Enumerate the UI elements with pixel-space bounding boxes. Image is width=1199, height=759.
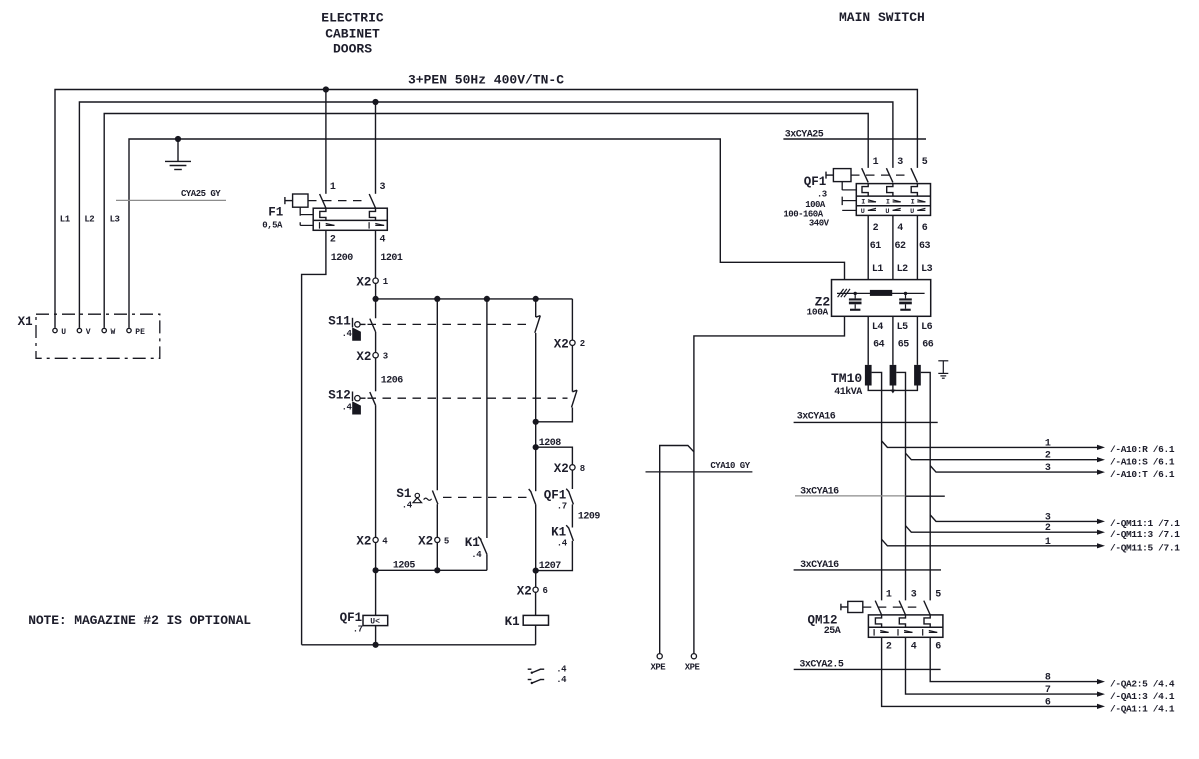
svg-text:.4: .4 [471, 550, 482, 560]
linkage dashed S11 [368, 323, 532, 325]
breaker QF1 pole3 U< symbol [910, 208, 925, 216]
svg-text:K1: K1 [465, 536, 480, 550]
svg-text:.4: .4 [402, 500, 413, 510]
feed QA2:5 [930, 637, 1175, 689]
breaker QF1 linkage dashes [842, 175, 909, 210]
breaker F1 pole1 I> trip symbol [320, 222, 335, 228]
svg-text:66: 66 [922, 340, 934, 351]
wire F1 pin3 drop [375, 102, 377, 194]
contact S1 pole2 (left rung) [529, 489, 536, 571]
transformer TM10 winding3 [914, 365, 921, 386]
svg-text:L4: L4 [872, 322, 884, 333]
contact QF1 aux [544, 470, 574, 512]
svg-text:/-A10:R /6.1: /-A10:R /6.1 [1110, 444, 1175, 455]
contact K1 aux (right rung) [536, 525, 574, 570]
breaker QF1 trip coil box [826, 169, 851, 182]
svg-text:3: 3 [1045, 512, 1051, 523]
svg-text:I: I [861, 198, 865, 206]
svg-text:XPE: XPE [685, 663, 701, 673]
cable label CYA10 GY [646, 461, 753, 472]
contact ref symbol row1 [528, 665, 567, 675]
terminal X1:PE [127, 328, 145, 337]
wire 63 [917, 215, 930, 279]
wire S1 to X2:5 [436, 504, 438, 537]
svg-text:L3: L3 [921, 264, 933, 275]
svg-text:X2: X2 [418, 535, 433, 549]
breaker QF1 pole1 thermal element [862, 184, 868, 197]
svg-text:4: 4 [897, 223, 903, 234]
svg-text:CYA25 GY: CYA25 GY [181, 189, 221, 199]
wire secondary T [921, 372, 930, 600]
door contact B (S12 linked) [536, 346, 577, 422]
svg-text:2: 2 [1045, 451, 1051, 462]
svg-text:L1: L1 [60, 214, 71, 224]
svg-text:.4: .4 [342, 329, 353, 339]
wire bus PEN [129, 139, 845, 328]
svg-text:V: V [86, 328, 91, 337]
node 1208 [533, 444, 539, 450]
wire to X2:6 [535, 571, 537, 588]
cable label 3xCYA16 (3) [794, 560, 941, 571]
svg-text:U<: U< [370, 617, 380, 626]
node 535/421 [533, 419, 539, 425]
svg-text:2: 2 [873, 223, 879, 234]
svg-text:/-QM11:5 /7.1: /-QM11:5 /7.1 [1110, 543, 1180, 554]
wire X2:5 to node 1205 [436, 543, 438, 571]
breaker QF1 pole2 blade [886, 168, 893, 182]
filter Z2 internal line [837, 292, 925, 294]
svg-text:6: 6 [922, 223, 928, 234]
cable label 3xCYA16 (1) [794, 411, 938, 422]
terminal X1:U [53, 328, 67, 337]
breaker QF1 undervoltage coil U< [340, 611, 388, 635]
filter Z2 body [807, 280, 931, 318]
svg-text:.7: .7 [353, 625, 363, 635]
terminal XPE right [685, 654, 701, 673]
switch S12 actuator [328, 389, 365, 415]
transformer TM10 winding1 [865, 365, 872, 386]
breaker QM12 pole2 I> symbol [898, 629, 913, 636]
wire to X2:2 [571, 299, 573, 340]
svg-text:/-QA2:5 /4.4: /-QA2:5 /4.4 [1110, 679, 1175, 690]
breaker F1 pole1 blade [320, 194, 326, 208]
feed A10:R [882, 438, 1175, 455]
linkage dashed S12 [368, 397, 568, 399]
wire door-circuit top bus [376, 283, 573, 318]
terminal X2:8 [554, 462, 585, 476]
svg-text:X2: X2 [554, 462, 569, 476]
node 1205 mid [434, 567, 440, 573]
breaker QM12 pole3 thermal element [924, 615, 930, 627]
svg-text:7: 7 [1045, 685, 1051, 696]
breaker F1 pole1 thermal element [320, 208, 326, 220]
wire L4 [868, 316, 884, 365]
svg-text:X1: X1 [18, 315, 33, 329]
svg-text:.4: .4 [557, 539, 568, 549]
svg-text:63: 63 [919, 241, 931, 252]
switch S1 selector actuator [396, 487, 431, 510]
svg-text:2: 2 [580, 339, 585, 349]
svg-text:L2: L2 [84, 214, 94, 224]
svg-text:6: 6 [543, 586, 548, 596]
feed A10:S [906, 451, 1175, 468]
breaker QF1 pole3 thermal element [911, 184, 917, 197]
wire bus L2 [79, 102, 893, 328]
svg-text:1: 1 [330, 182, 336, 193]
breaker F1 pole2 blade [369, 194, 375, 208]
wire 1201 [376, 230, 403, 278]
node 1205 left [373, 567, 379, 573]
svg-text:MAIN SWITCH: MAIN SWITCH [839, 10, 925, 25]
wire L5 [893, 316, 909, 365]
svg-text:QF1: QF1 [804, 175, 827, 189]
svg-text:1206: 1206 [381, 375, 404, 386]
svg-text:2: 2 [886, 642, 892, 653]
svg-text:XPE: XPE [651, 663, 667, 673]
svg-text:8: 8 [1045, 673, 1051, 684]
wire secondary S [896, 372, 905, 600]
breaker F1 body box [313, 208, 387, 230]
breaker QM12 pole1 blade [875, 601, 881, 615]
wire bottom rail [302, 644, 536, 646]
svg-text:1: 1 [873, 157, 879, 168]
svg-text:L2: L2 [897, 264, 909, 275]
terminal X1:W [102, 328, 116, 337]
svg-text:25A: 25A [824, 626, 841, 637]
svg-text:L5: L5 [897, 322, 909, 333]
svg-text:U: U [61, 328, 66, 337]
breaker QM12 pole3 I> symbol [923, 629, 938, 636]
feed QM11:1 [930, 512, 1180, 529]
svg-text:6: 6 [935, 642, 941, 653]
terminal block X1 [18, 314, 160, 358]
svg-text:3xCYA16: 3xCYA16 [797, 411, 836, 422]
svg-text:K1: K1 [505, 615, 520, 629]
svg-text:2: 2 [330, 235, 336, 246]
breaker QF1 body box [856, 184, 930, 216]
svg-text:5: 5 [444, 536, 449, 546]
svg-text:1: 1 [1045, 438, 1051, 449]
cable label 3xCYA16 (2) [795, 487, 945, 498]
svg-text:S12: S12 [328, 389, 351, 403]
svg-text:64: 64 [873, 340, 885, 351]
svg-text:L3: L3 [110, 214, 120, 224]
wire PE bypass from Z2 to XPE [694, 316, 845, 653]
svg-text:CYA10 GY: CYA10 GY [710, 461, 750, 471]
wire 1205 [376, 560, 487, 571]
svg-text:3: 3 [380, 182, 386, 193]
terminal X2:1 [356, 275, 388, 289]
svg-text:5: 5 [922, 157, 928, 168]
svg-text:3+PEN 50Hz 400V/TN-C: 3+PEN 50Hz 400V/TN-C [408, 72, 564, 87]
breaker QM12 linkage dashes [863, 606, 922, 608]
svg-text:100A: 100A [807, 307, 829, 318]
node 1207 [533, 568, 539, 574]
svg-text:41kVA: 41kVA [834, 386, 862, 398]
breaker QF1 pole2 U< symbol [885, 208, 900, 216]
svg-text:1205: 1205 [393, 560, 416, 571]
breaker QM12 pole2 blade [899, 601, 905, 615]
svg-text:65: 65 [898, 340, 910, 351]
svg-text:U: U [885, 208, 889, 216]
svg-text:/-A10:T /6.1: /-A10:T /6.1 [1110, 469, 1175, 480]
wire bus L3 [104, 114, 868, 328]
svg-text:S1: S1 [396, 487, 411, 501]
terminal X2:6 [517, 584, 548, 598]
svg-text:.7: .7 [557, 502, 567, 512]
label TM10 [831, 371, 862, 398]
title ELECTRIC CABINET DOORS [321, 10, 384, 56]
svg-text:I: I [886, 198, 890, 206]
svg-text:5: 5 [935, 590, 941, 601]
svg-text:340V: 340V [809, 219, 830, 229]
switch S11 actuator [328, 315, 365, 341]
terminal XPE left [651, 654, 667, 673]
svg-text:S11: S11 [328, 315, 351, 329]
node bus PEN / ground [175, 136, 181, 142]
svg-text:/-QM11:3 /7.1: /-QM11:3 /7.1 [1110, 529, 1180, 540]
svg-text:I: I [911, 198, 915, 206]
svg-text:1207: 1207 [539, 561, 562, 572]
wire X2:4 to node 1205 [375, 543, 377, 616]
cable label 3xCYA25 [783, 129, 926, 140]
ground symbol on PEN bus [165, 139, 191, 170]
wire 61 [868, 215, 881, 279]
svg-text:/-A10:S /6.1: /-A10:S /6.1 [1110, 456, 1175, 467]
wire secondary R [872, 372, 882, 600]
ground symbol (TM10) [938, 361, 948, 378]
svg-text:NOTE: MAGAZINE #2 IS OPTIONAL: NOTE: MAGAZINE #2 IS OPTIONAL [28, 613, 251, 628]
breaker QF1 pole2 I> symbol [886, 198, 901, 206]
wire 1208 [536, 422, 573, 491]
node door bus x375 [373, 296, 379, 302]
svg-text:W: W [111, 328, 116, 337]
svg-text:ELECTRIC: ELECTRIC [321, 10, 384, 25]
breaker QM12 pole3 blade [924, 601, 930, 615]
svg-text:X2: X2 [554, 338, 569, 352]
filter Z2 hatch [838, 289, 850, 297]
svg-text:X2: X2 [517, 584, 532, 598]
linkage dashed S1 [443, 496, 528, 498]
switch S11 contact blade [370, 319, 376, 332]
breaker QM12 trip coil box [841, 601, 863, 612]
breaker QM12 pole2 thermal element [899, 615, 905, 627]
svg-text:.4: .4 [556, 675, 567, 685]
svg-text:3: 3 [383, 352, 388, 362]
terminal X1:V [77, 328, 90, 337]
svg-text:4: 4 [380, 235, 386, 246]
node rail / U< coil [373, 642, 379, 648]
contact ref symbol row2 [528, 675, 567, 685]
feed QA1:1 [882, 637, 1175, 714]
breaker QM12 pole1 thermal element [875, 615, 881, 627]
breaker QF1 pole1 blade [862, 168, 869, 182]
breaker F1 pole2 I> trip symbol [369, 222, 384, 228]
svg-text:PE: PE [135, 328, 145, 337]
wire U< coil to rail [375, 626, 377, 645]
breaker QF1 pole3 blade [911, 168, 918, 182]
switch S12 contact blade [370, 392, 376, 405]
breaker QF1 pole3 I> symbol [911, 198, 926, 206]
node door bus x437 [434, 296, 440, 302]
svg-text:3: 3 [897, 157, 903, 168]
wire bus L1 [55, 90, 917, 328]
wire L6 [917, 316, 933, 365]
breaker QM12 body box [868, 615, 943, 637]
svg-text:QF1: QF1 [544, 489, 567, 503]
svg-text:0,5A: 0,5A [262, 221, 283, 231]
relay K1 coil [505, 592, 549, 645]
svg-text:CABINET: CABINET [325, 27, 380, 42]
cable label 3xCYA2.5 [794, 659, 941, 670]
switch S1 contact blade [432, 491, 438, 505]
feed QM11:5 [882, 537, 1181, 554]
terminal X2:2 [554, 338, 585, 352]
node bus L2 / F1 pin3 [372, 99, 378, 105]
svg-text:3: 3 [1045, 463, 1051, 474]
wire 62 [893, 215, 906, 279]
svg-text:L6: L6 [921, 322, 933, 333]
svg-text:U: U [910, 208, 914, 216]
breaker QM12 pole1 I> symbol [874, 629, 889, 636]
breaker F1 pole2 thermal element [369, 208, 375, 220]
wire PE branch with jog [660, 446, 694, 654]
node bus L1 / F1 pin1 [323, 86, 329, 92]
svg-text:.4: .4 [556, 665, 567, 675]
wire 1206 [376, 358, 404, 391]
breaker QF1 pole1 U< symbol [861, 208, 876, 216]
terminal X2:4 [356, 535, 388, 549]
feed QM11:3 [906, 523, 1181, 540]
door contact A (S11 linked) [535, 299, 541, 419]
svg-text:1209: 1209 [578, 512, 601, 523]
contact K1 aux (left) [465, 299, 487, 570]
svg-text:61: 61 [870, 241, 882, 252]
transformer star point [868, 386, 917, 394]
wire 1200 [302, 230, 354, 645]
filter Z2 capacitor C1 [849, 292, 862, 311]
svg-text:3: 3 [911, 590, 917, 601]
svg-text:8: 8 [580, 464, 585, 474]
svg-text:L1: L1 [872, 264, 884, 275]
svg-text:2: 2 [1045, 523, 1051, 534]
filter Z2 inductor [870, 290, 892, 296]
feed QA1:3 [906, 637, 1175, 702]
terminal X2:5 [418, 535, 449, 549]
wire F1 pin1 drop [325, 90, 327, 194]
svg-text:1: 1 [886, 590, 892, 601]
svg-text:1: 1 [1045, 537, 1051, 548]
wire X2:3 drop [375, 332, 377, 353]
svg-text:.4: .4 [342, 403, 353, 413]
svg-text:/-QA1:1 /4.1: /-QA1:1 /4.1 [1110, 703, 1175, 714]
svg-text:F1: F1 [268, 206, 283, 220]
svg-text:62: 62 [895, 241, 907, 252]
svg-text:TM10: TM10 [831, 371, 862, 386]
wire 1209 [572, 504, 600, 527]
svg-text:QF1: QF1 [340, 611, 363, 625]
svg-text:X2: X2 [356, 350, 371, 364]
svg-text:6: 6 [1045, 697, 1051, 708]
svg-text:DOORS: DOORS [333, 42, 372, 57]
filter Z2 capacitor C2 [899, 292, 912, 311]
terminal X2:3 [356, 350, 387, 364]
svg-text:1201: 1201 [380, 253, 403, 264]
svg-text:/-QM11:1 /7.1: /-QM11:1 /7.1 [1110, 518, 1180, 529]
svg-text:/-QA1:3 /4.1: /-QA1:3 /4.1 [1110, 691, 1175, 702]
wire S12 to X2:4 [375, 405, 377, 537]
cable label CYA25 GY [116, 189, 226, 200]
svg-text:U: U [861, 208, 865, 216]
transformer TM10 winding2 [890, 365, 897, 386]
node door bus x535 [533, 296, 539, 302]
svg-text:.3: .3 [817, 190, 827, 200]
breaker F1 linkage dashes [300, 201, 367, 226]
svg-text:X2: X2 [356, 535, 371, 549]
wire rung X2:5 / S1 [436, 299, 438, 490]
feed A10:T [930, 463, 1175, 480]
breaker QF1 pole1 I> symbol [861, 198, 876, 206]
svg-text:4: 4 [911, 642, 917, 653]
svg-text:1200: 1200 [331, 253, 354, 264]
svg-text:X2: X2 [356, 275, 371, 289]
breaker F1 trip coil box [285, 194, 308, 207]
node door bus x487 [484, 296, 490, 302]
breaker QF1 pole2 thermal element [887, 184, 893, 197]
